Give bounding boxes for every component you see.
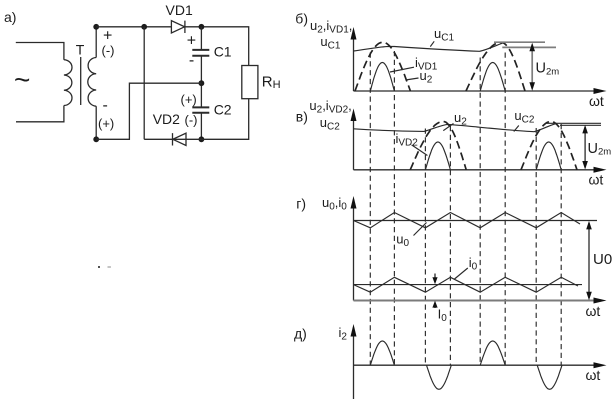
svg-text:uC2: uC2 [320, 115, 340, 133]
curve uC1 [354, 43, 504, 52]
pointer line u2 [406, 78, 419, 80]
plot g x-axis [354, 300, 596, 302]
dashed timing line 6 [504, 53, 506, 366]
node C1 top junction dot [199, 24, 205, 30]
svg-text:U2m: U2m [536, 61, 560, 78]
svg-text:u0: u0 [396, 231, 409, 249]
wire C1 top lead [200, 27, 202, 50]
plot b y-axis [353, 36, 355, 91]
level line U2m reference plot v [560, 124, 601, 126]
svg-text:(+): (+) [181, 92, 197, 107]
svg-text:VD2: VD2 [153, 111, 180, 127]
node VD2-branch junction dot [141, 24, 147, 30]
pointer line u0 [414, 223, 427, 236]
wire primary bottom [16, 106, 64, 122]
curve i2 positive hump 2 [480, 341, 505, 365]
dashed timing line 8 [560, 124, 562, 365]
I0 upper dimension arrow [434, 274, 436, 280]
svg-text:RН: RН [262, 74, 281, 92]
wire C1 bottom to mid node [200, 56, 202, 107]
curve i2 negative hump 1 [427, 365, 452, 389]
svg-text:uC1: uC1 [434, 26, 454, 44]
capacitor C2 [192, 107, 209, 112]
plot g y-axis [353, 205, 355, 301]
curve iVD2 hump 1 [425, 142, 450, 170]
wire top rail [96, 26, 171, 28]
svg-text:u2,iVD2,: u2,iVD2, [309, 98, 351, 116]
node secondary top junction dot [93, 24, 99, 30]
svg-text:ωt: ωt [586, 303, 601, 319]
diode VD2 [173, 133, 187, 145]
svg-text:(-): (-) [102, 43, 115, 58]
capacitor C1 [192, 50, 209, 56]
svg-text:-: - [189, 52, 194, 69]
curve uC2 [354, 123, 557, 131]
node C2 bottom junction dot [199, 136, 205, 142]
svg-text:ωt: ωt [586, 367, 601, 383]
pointer line u2 plot v [443, 124, 453, 131]
I0 lower dimension arrow [434, 305, 436, 308]
level line uC2 flat top [547, 122, 601, 124]
gray level line lower [502, 46, 556, 48]
i0 mean level line [354, 284, 583, 286]
svg-text:iVD2: iVD2 [396, 131, 419, 149]
svg-text:u2: u2 [454, 110, 467, 128]
dashed timing line 5 [479, 58, 481, 366]
resistor RH [242, 66, 258, 99]
plot b x-axis [354, 90, 596, 92]
svg-text:ωt: ωt [589, 93, 604, 109]
pointer line iVD2 [412, 145, 428, 156]
wire VD2 branch vertical [143, 27, 145, 140]
svg-text:б): б) [295, 10, 308, 26]
dashed timing line 4 [449, 126, 451, 365]
svg-text:i0: i0 [469, 255, 478, 273]
wire C2 bottom lead [200, 113, 202, 139]
plot d x-axis [354, 364, 596, 366]
curve u2 dashed hump 2 [466, 42, 525, 91]
diode VD1 [171, 21, 185, 33]
curve u2 dashed hump 2 plot v [521, 122, 577, 170]
curve u0 ripple zigzag [354, 213, 581, 228]
svg-text:uC2: uC2 [514, 108, 534, 126]
svg-text:T: T [76, 42, 85, 58]
svg-text:U0: U0 [593, 251, 612, 268]
svg-text:-: - [103, 97, 108, 114]
pointer line iVD1 [390, 67, 414, 72]
plot d y-axis [353, 333, 355, 399]
curve i0 ripple zigzag [354, 277, 579, 292]
svg-text:i2: i2 [339, 325, 348, 343]
dashed timing line 7 [535, 128, 537, 365]
pointer line uC2 plot v [514, 126, 519, 132]
node secondary bottom junction dot [93, 136, 99, 142]
dashed timing line 3 [424, 129, 426, 366]
svg-text:I0: I0 [438, 307, 448, 325]
dimension arrow U0 [588, 223, 590, 298]
curve iVD1 hump 1 [370, 63, 394, 92]
u0 mean level line [354, 220, 598, 222]
svg-text:C1: C1 [214, 44, 232, 60]
transformer core [80, 57, 82, 105]
svg-text:+: + [187, 33, 196, 50]
svg-text:(-): (-) [185, 113, 198, 128]
curve u2 dashed hump 1 [355, 42, 410, 91]
svg-text:uC1: uC1 [320, 34, 340, 52]
curve u2 dashed hump 1 plot v [410, 122, 466, 170]
svg-text:VD1: VD1 [166, 2, 193, 18]
svg-text:C2: C2 [214, 101, 232, 117]
curve i2 negative hump 2 [537, 365, 562, 389]
wire secondary bottom lead [95, 106, 97, 139]
plot v x-axis [354, 169, 596, 171]
wire top rail right of VD1 [185, 27, 249, 66]
svg-text:~: ~ [14, 64, 30, 95]
wire bottom rail [144, 99, 249, 140]
svg-text:а): а) [4, 9, 16, 25]
dashed timing line 1 [369, 53, 371, 366]
curve i2 positive hump 1 [370, 341, 394, 365]
curve iVD2 hump 2 [536, 142, 561, 170]
node mid junction dot [199, 80, 205, 86]
svg-text:U2m: U2m [588, 141, 612, 158]
svg-text:г): г) [296, 196, 306, 212]
plot v y-axis [353, 117, 355, 170]
dimension arrow U2m plot v [584, 127, 586, 168]
stray dots [98, 266, 100, 268]
svg-text:(+): (+) [98, 116, 114, 131]
svg-text:ωt: ωt [589, 172, 604, 188]
pointer line i0 [455, 268, 468, 279]
svg-text:u0,i0: u0,i0 [322, 195, 347, 213]
gray level line upper (U2m level) [494, 41, 545, 43]
curve iVD1 hump 2 [480, 63, 505, 92]
wire secondary top lead [95, 27, 97, 58]
wire primary top [16, 43, 64, 60]
svg-text:д): д) [294, 325, 307, 341]
dashed timing line 2 [393, 51, 395, 365]
svg-text:u2,iVD1,: u2,iVD1, [310, 18, 352, 36]
transformer secondary winding [88, 58, 96, 107]
dimension arrow U2m plot b [531, 45, 533, 89]
transformer T primary winding [64, 60, 72, 106]
wire centre tap from secondary bottom to mid node [96, 83, 201, 139]
pointer line uC1 [430, 41, 434, 46]
svg-text:в): в) [296, 109, 308, 125]
